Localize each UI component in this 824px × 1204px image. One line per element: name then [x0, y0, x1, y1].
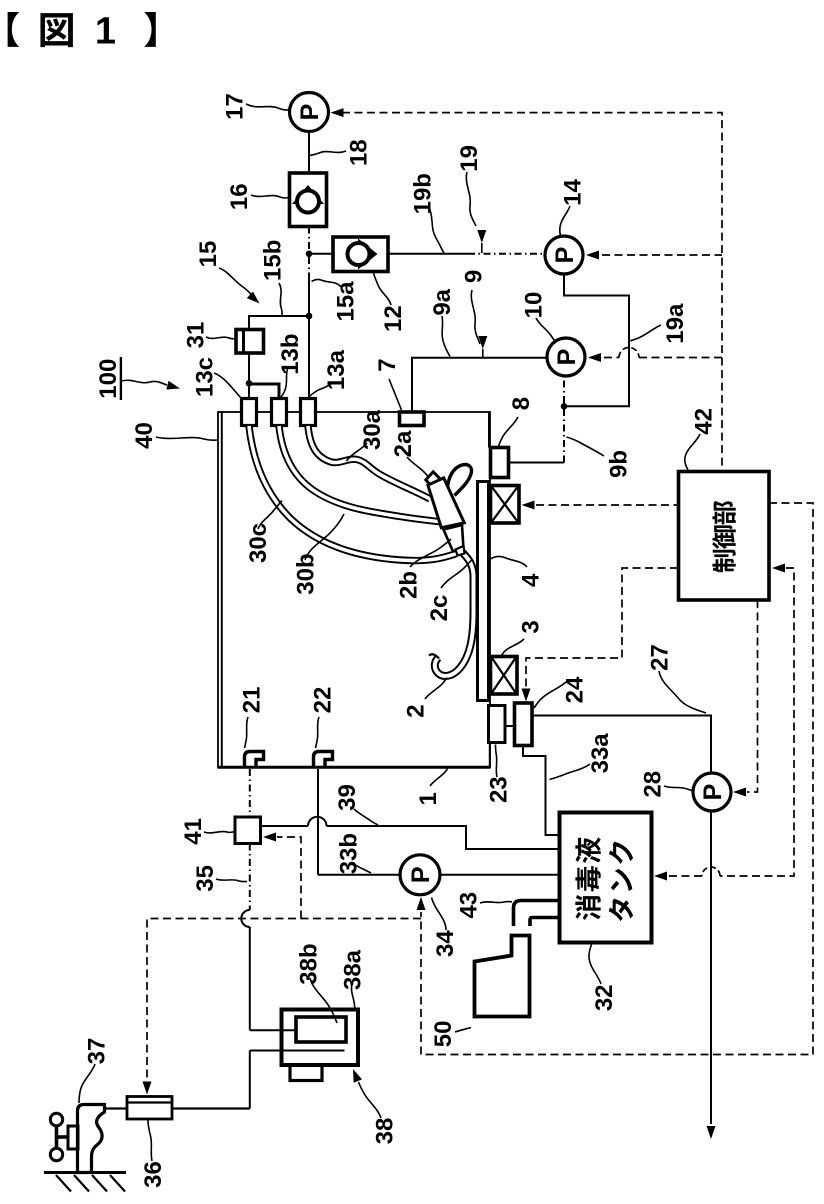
- svg-text:9b: 9b: [605, 450, 632, 478]
- arrow into tank 32: [654, 872, 667, 881]
- wire 31 down: [248, 353, 250, 384]
- svg-text:8: 8: [508, 397, 535, 410]
- tube 30a: [308, 426, 430, 499]
- svg-text:19b: 19b: [409, 173, 436, 214]
- port 13c: [242, 399, 257, 426]
- svg-text:2a: 2a: [390, 430, 417, 457]
- svg-text:10: 10: [520, 292, 547, 319]
- svg-text:15a: 15a: [332, 281, 359, 322]
- wire 22 down: [317, 769, 319, 875]
- wire 27 down: [710, 811, 712, 1124]
- svg-text:1: 1: [415, 792, 442, 805]
- softener 38 inner box 38b: [296, 1017, 346, 1042]
- svg-text:28: 28: [640, 771, 667, 798]
- svg-text:31: 31: [182, 322, 209, 349]
- svg-text:38b: 38b: [295, 943, 322, 984]
- pressure sensor P17: [290, 93, 329, 132]
- svg-text:9: 9: [461, 270, 488, 283]
- tube 30c: [249, 426, 457, 561]
- svg-text:24: 24: [561, 676, 588, 703]
- svg-text:40: 40: [131, 422, 158, 449]
- water line 35 lower: [249, 927, 251, 1030]
- control line 42-to-10 dashed: [604, 357, 619, 359]
- svg-text:18: 18: [345, 139, 372, 166]
- svg-text:33a: 33a: [587, 733, 614, 774]
- wire 27: [532, 716, 711, 774]
- svg-text:19a: 19a: [662, 303, 689, 344]
- arrow into box42 right: [772, 564, 785, 573]
- hop of 39 over 22 line: [308, 817, 327, 826]
- connector plug 2a body: [428, 478, 464, 528]
- pipe to 38 lower: [250, 1050, 345, 1052]
- check valve 12: [333, 237, 388, 272]
- arrow into P28: [733, 788, 746, 797]
- svg-text:2c: 2c: [426, 595, 453, 622]
- svg-text:22: 22: [309, 687, 336, 714]
- node 15 junction: [306, 313, 313, 320]
- plug tip 2c: [456, 546, 465, 556]
- svg-text:P: P: [551, 247, 579, 264]
- control unit 42 box: [679, 472, 770, 601]
- node 13 junction: [246, 380, 253, 387]
- arrow into P10: [588, 353, 601, 362]
- port 22: [314, 752, 333, 767]
- connector plug 2a cap: [426, 472, 440, 488]
- plug tip 2b: [444, 525, 464, 552]
- svg-text:30a: 30a: [359, 409, 386, 450]
- channel bar 4: [478, 482, 489, 701]
- pipe from 38 upper: [250, 1029, 297, 1031]
- arrow into P17: [331, 108, 344, 117]
- check valve 16: [290, 173, 327, 227]
- svg-text:2: 2: [402, 704, 429, 717]
- wire 16 to junction dash-dot: [308, 227, 310, 254]
- arrow into valve 24: [522, 689, 531, 702]
- hop of sensor line over 27: [702, 867, 720, 876]
- arrow into P14: [586, 251, 599, 260]
- wire 9b dash-dot lower: [563, 409, 565, 463]
- arrow into box36: [143, 1082, 152, 1095]
- port 13a: [301, 399, 316, 426]
- relief valve 31: [236, 330, 264, 354]
- svg-text:37: 37: [83, 1038, 110, 1065]
- svg-text:15: 15: [195, 241, 222, 268]
- svg-text:38: 38: [371, 1118, 398, 1145]
- softener 38 foot: [290, 1065, 322, 1081]
- pressure sensor P14: [545, 236, 583, 274]
- wire 19b dash-dot: [468, 253, 544, 255]
- svg-text:39: 39: [334, 784, 361, 811]
- suction unit 8: [491, 448, 509, 478]
- wire branch to 13b: [249, 384, 279, 399]
- svg-text:38a: 38a: [339, 949, 366, 990]
- control rail to water units dashed: [147, 919, 421, 1081]
- port 21: [245, 752, 264, 767]
- hop of line 35 over rail: [241, 910, 250, 927]
- ground hatching: [56, 1175, 71, 1192]
- svg-text:41: 41: [180, 818, 207, 845]
- washing bath box 40: [218, 412, 490, 768]
- svg-text:7: 7: [374, 358, 401, 371]
- svg-text:15b: 15b: [259, 240, 286, 281]
- arrow end of 27: [707, 1126, 716, 1139]
- water line to 38: [249, 1051, 251, 1109]
- softener 38 outer box: [282, 1010, 359, 1066]
- wire 33b left: [318, 874, 401, 876]
- pressure sensor P28: [693, 773, 731, 811]
- port 13b: [272, 399, 287, 426]
- svg-text:42: 42: [690, 408, 717, 435]
- svg-text:1: 1: [95, 11, 116, 53]
- hop of dashed line over 19a: [619, 348, 639, 358]
- svg-text:9a: 9a: [429, 288, 456, 315]
- endoscope tube 2 with loop: [435, 551, 474, 676]
- control line 42-to-valve4 dashed: [536, 504, 678, 506]
- wire 15a down to 13a: [308, 316, 310, 399]
- svg-text:23: 23: [485, 776, 512, 803]
- svg-text:27: 27: [646, 644, 673, 671]
- port 24: [515, 703, 533, 746]
- water valve 41: [235, 817, 261, 844]
- valve 3 box: [491, 657, 518, 695]
- svg-text:43: 43: [455, 892, 482, 919]
- wire 13 junction down: [248, 384, 250, 399]
- box 40 right edge bottom: [489, 743, 491, 768]
- wire 15b dash-dot segment: [308, 257, 310, 276]
- pipe 36-right: [172, 1107, 250, 1109]
- water line 35 from 21 dash-dot: [249, 769, 251, 817]
- svg-text:12: 12: [380, 305, 407, 332]
- svg-text:2b: 2b: [395, 571, 422, 599]
- faucet 37: [78, 1105, 105, 1173]
- svg-text:13a: 13a: [323, 349, 350, 390]
- control line 42-to-valve24 dashed: [526, 568, 678, 688]
- tube 30b: [279, 426, 442, 522]
- control line 42-right-rail dashed: [421, 503, 813, 1055]
- connector 7: [400, 412, 425, 426]
- svg-text:P: P: [296, 104, 324, 121]
- wire 15b solid segment: [308, 276, 310, 316]
- wire 39: [327, 826, 559, 849]
- wire 9b dash-dot upper: [563, 377, 565, 403]
- ground line: [44, 1171, 126, 1174]
- wire 19a from P14: [564, 275, 629, 407]
- control line 42-to-17 dashed: [342, 113, 722, 471]
- arrow into valve 41: [263, 833, 276, 842]
- svg-text:13b: 13b: [277, 333, 304, 374]
- svg-text:4: 4: [517, 573, 544, 587]
- wire 8 to 9b: [509, 462, 565, 464]
- flow sensor P34: [400, 855, 440, 895]
- light guide hook on 2a: [447, 465, 471, 500]
- box 40 thick bottom edge: [218, 766, 490, 769]
- node 15b junction: [306, 251, 313, 258]
- svg-text:13c: 13c: [191, 357, 218, 397]
- svg-text:P: P: [553, 349, 581, 366]
- wire 19b solid: [388, 253, 468, 255]
- svg-text:100: 100: [95, 359, 122, 399]
- svg-text:33b: 33b: [335, 833, 362, 874]
- valve 4 box: [491, 486, 520, 524]
- wire 33a: [523, 746, 558, 836]
- node 9b junction: [561, 403, 568, 410]
- wire branch to relief 31: [249, 316, 309, 330]
- svg-text:14: 14: [559, 179, 586, 206]
- box 40 right edge top: [488, 412, 490, 448]
- arrow into valve 4: [522, 501, 535, 510]
- wire junction to valve 12: [309, 253, 333, 255]
- wire 33b right: [440, 874, 558, 876]
- control line 42-to-14 dashed: [602, 254, 722, 256]
- figure title 【図1】: [8, 11, 156, 53]
- svg-text:32: 32: [591, 984, 618, 1011]
- svg-text:21: 21: [238, 687, 265, 714]
- svg-text:17: 17: [221, 93, 248, 120]
- svg-text:P: P: [407, 866, 435, 883]
- filter box 36: [127, 1097, 172, 1120]
- box 40 inner left edge: [221, 413, 223, 768]
- sensor line tank-42 dashed: [720, 568, 794, 876]
- control line 42-to-P28 dashed: [747, 600, 758, 792]
- wire 39 from 41: [261, 825, 309, 827]
- svg-text:36: 36: [140, 1161, 167, 1188]
- pipe faucet-36: [104, 1107, 127, 1109]
- nozzle pipe 43: [514, 901, 559, 927]
- arrow into P34: [417, 897, 426, 910]
- svg-text:19: 19: [456, 145, 483, 172]
- svg-text:3: 3: [517, 620, 544, 633]
- port 23: [489, 706, 506, 743]
- wire P17 stem: [308, 132, 310, 173]
- svg-text:16: 16: [226, 183, 253, 210]
- svg-text:P: P: [699, 784, 727, 801]
- wire 9: [412, 358, 547, 412]
- wire 23-24: [505, 725, 515, 727]
- svg-text:50: 50: [430, 1021, 457, 1048]
- pressure sensor P10: [547, 338, 585, 376]
- disinfectant tank 32: [560, 813, 652, 943]
- svg-text:34: 34: [432, 930, 459, 957]
- water line 35 below 41 dash-dot: [249, 844, 251, 911]
- control branch to valve41 dashed: [277, 837, 301, 919]
- svg-text:35: 35: [192, 865, 219, 892]
- collection port 50: [475, 936, 530, 1017]
- faucet handle: [50, 1113, 62, 1125]
